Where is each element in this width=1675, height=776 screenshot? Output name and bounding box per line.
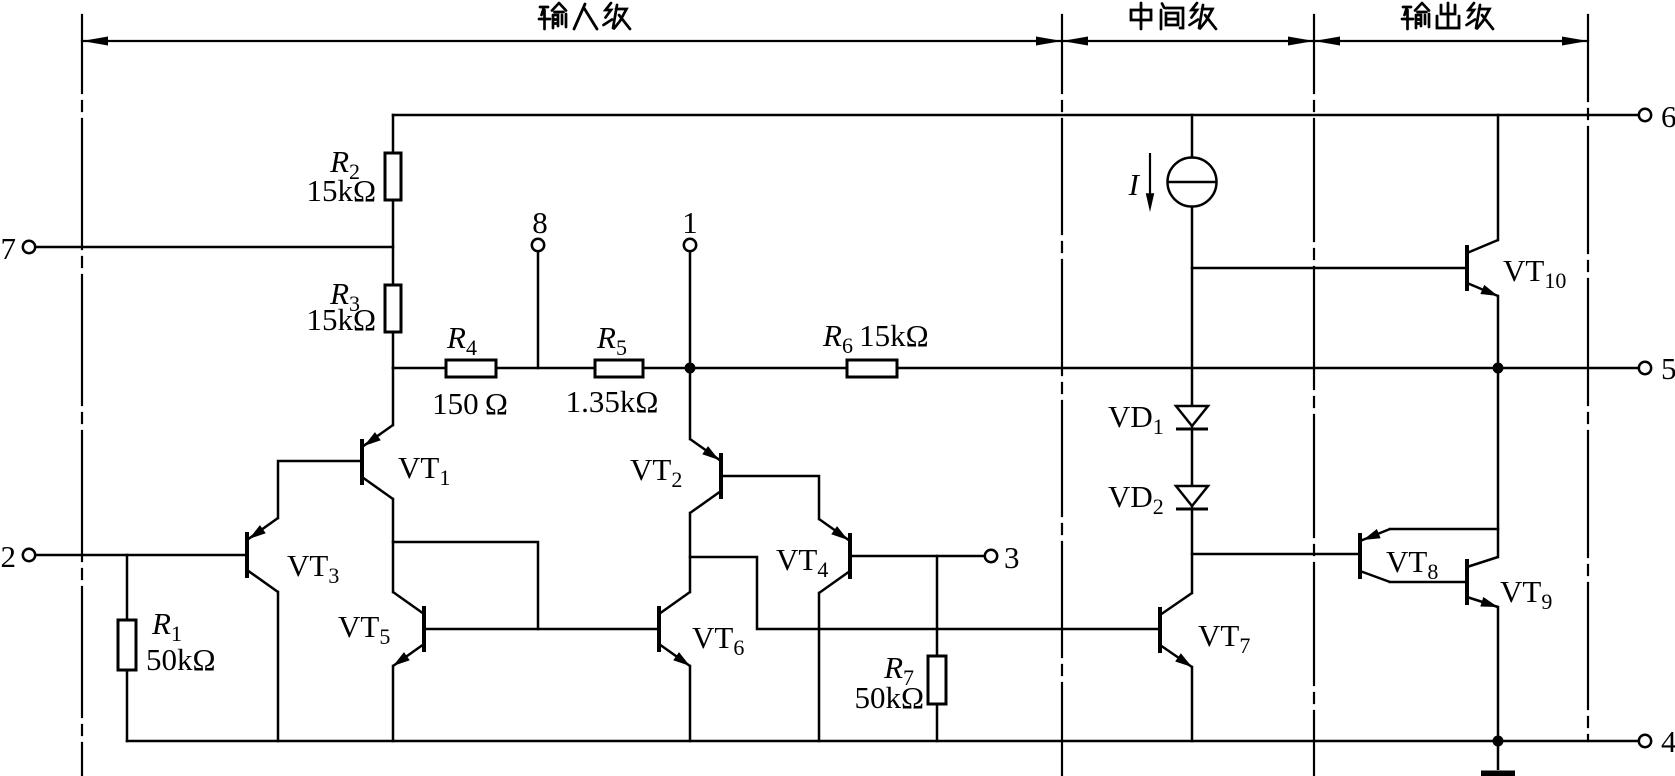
transistor VT10 (1467, 240, 1500, 301)
stage label output stage (1402, 3, 1493, 29)
wire VT4 collector to bottom rail (818, 593, 821, 741)
resistor R4 (446, 360, 496, 377)
transistor VT7 (1160, 593, 1195, 671)
junction node VT10 emitter / middle rail (1493, 363, 1504, 374)
wire VT1 collector to VT5/VT6 base link (393, 542, 538, 629)
resistor R3 (385, 285, 401, 332)
wire VT4 base to terminal 3 (852, 555, 986, 558)
wire terminal 8 branch (537, 251, 540, 368)
svg-text:50kΩ: 50kΩ (854, 680, 924, 715)
svg-text:8: 8 (532, 205, 548, 240)
wire VD2/VT7 node to VT8 base (1192, 553, 1358, 556)
svg-text:2: 2 (1, 539, 17, 574)
current direction arrow (1146, 153, 1155, 212)
svg-text:3: 3 (1004, 540, 1020, 575)
dimension line input stage (82, 40, 1062, 42)
terminal 3 (985, 550, 997, 562)
terminal 6 (1639, 109, 1651, 121)
terminal 7 (23, 241, 35, 253)
dimension line middle stage (1062, 40, 1314, 42)
wire main middle rail to terminal 5 (393, 367, 1640, 370)
stage label middle stage (1131, 3, 1216, 29)
wire R2 branch vertical (392, 115, 395, 368)
boundary dash-dot line middle/output (1313, 15, 1315, 776)
wire VT10 collector vertical (1497, 115, 1500, 240)
transistor VT6 (659, 592, 693, 670)
svg-text:5: 5 (1661, 351, 1675, 386)
wire VT3 collector to bottom rail (277, 592, 280, 741)
wire VT5 base to VT6 base (426, 628, 657, 631)
dimension arrowheads (82, 37, 1588, 46)
svg-text:1.35kΩ: 1.35kΩ (566, 384, 659, 419)
wire terminal 2 to VT3 base (35, 554, 245, 557)
svg-text:1: 1 (682, 205, 698, 240)
wire VT9 emitter to bottom rail (1497, 607, 1500, 741)
diode VD1 (1176, 406, 1208, 429)
svg-text:15kΩ: 15kΩ (306, 173, 376, 208)
wire VT1 collector to VT5 collector (392, 499, 395, 592)
wire VT10 emitter to middle rail (1497, 296, 1500, 368)
transistor VT5 (390, 592, 424, 670)
current source I symbol (1168, 158, 1217, 207)
transistor VT4 (819, 519, 851, 593)
ground (1481, 741, 1515, 774)
wire VT7 emitter to bottom rail (1191, 667, 1194, 741)
boundary dash-dot line left (81, 15, 83, 776)
terminal 2 (23, 549, 35, 561)
transistor VT3 (246, 518, 278, 592)
svg-text:R6 15kΩ: R6 15kΩ (822, 318, 929, 358)
svg-text:50kΩ: 50kΩ (146, 642, 216, 677)
resistor R1 (118, 620, 136, 670)
wire terminal 1 branch (689, 251, 692, 368)
svg-text:I: I (1128, 167, 1141, 202)
svg-text:15kΩ: 15kΩ (306, 302, 376, 337)
transistor VT8 (1360, 529, 1390, 582)
boundary dash-dot line right (1587, 15, 1589, 741)
dimension line output stage (1314, 40, 1588, 42)
terminal 5 (1639, 362, 1651, 374)
terminal 8 (532, 239, 544, 251)
svg-text:6: 6 (1661, 99, 1675, 134)
terminal 4 (1639, 735, 1651, 747)
svg-text:4: 4 (1661, 724, 1675, 759)
transistor VT1 (361, 425, 393, 499)
wire VT5 emitter to bottom rail (392, 666, 395, 741)
wire VT2 base to VT4 emitter (723, 476, 819, 519)
transistor VT2 (690, 439, 722, 513)
wire VT1 emitter vertical (392, 368, 395, 425)
resistor R5 (595, 360, 643, 377)
diode VD2 (1176, 486, 1208, 509)
terminal 1 (684, 239, 696, 251)
wire VT2 collector to VT6 collector (689, 513, 692, 592)
transistor VT9 (1467, 557, 1500, 612)
wire R1 branch vertical (126, 555, 129, 741)
resistor R2 (385, 153, 401, 200)
wire VT8 emitter link (1390, 528, 1498, 531)
junction node VT9 emitter / bottom rail (1493, 736, 1504, 747)
boundary dash-dot line input/middle (1061, 15, 1063, 776)
wire VT3 emitter to VT1 base link (278, 461, 360, 518)
wire VT6 emitter to bottom rail (689, 666, 692, 741)
wire terminal 7 to R2/R3 node (35, 246, 393, 249)
wire R7 branch vertical (936, 556, 939, 741)
wire VT2 emitter vertical (689, 368, 692, 439)
stage label input stage (539, 3, 630, 29)
wire VT8 collector to VT9 base (1390, 581, 1465, 584)
junction node at terminal 1 / VT2 emitter (685, 363, 696, 374)
wire first stage output to VT7 base (690, 557, 1158, 629)
svg-text:7: 7 (1, 231, 17, 266)
wire current source to VT10 base (1192, 267, 1465, 270)
wire bottom negative rail to terminal 4 (127, 740, 1640, 743)
wire top positive rail to terminal 6 (393, 114, 1640, 117)
svg-text:150 Ω: 150 Ω (432, 386, 508, 421)
resistor R6 (847, 360, 897, 377)
resistor R7 (928, 656, 946, 704)
wire current source branch / diode chain (1191, 115, 1194, 593)
wire middle rail to VT9 collector (1497, 368, 1500, 557)
